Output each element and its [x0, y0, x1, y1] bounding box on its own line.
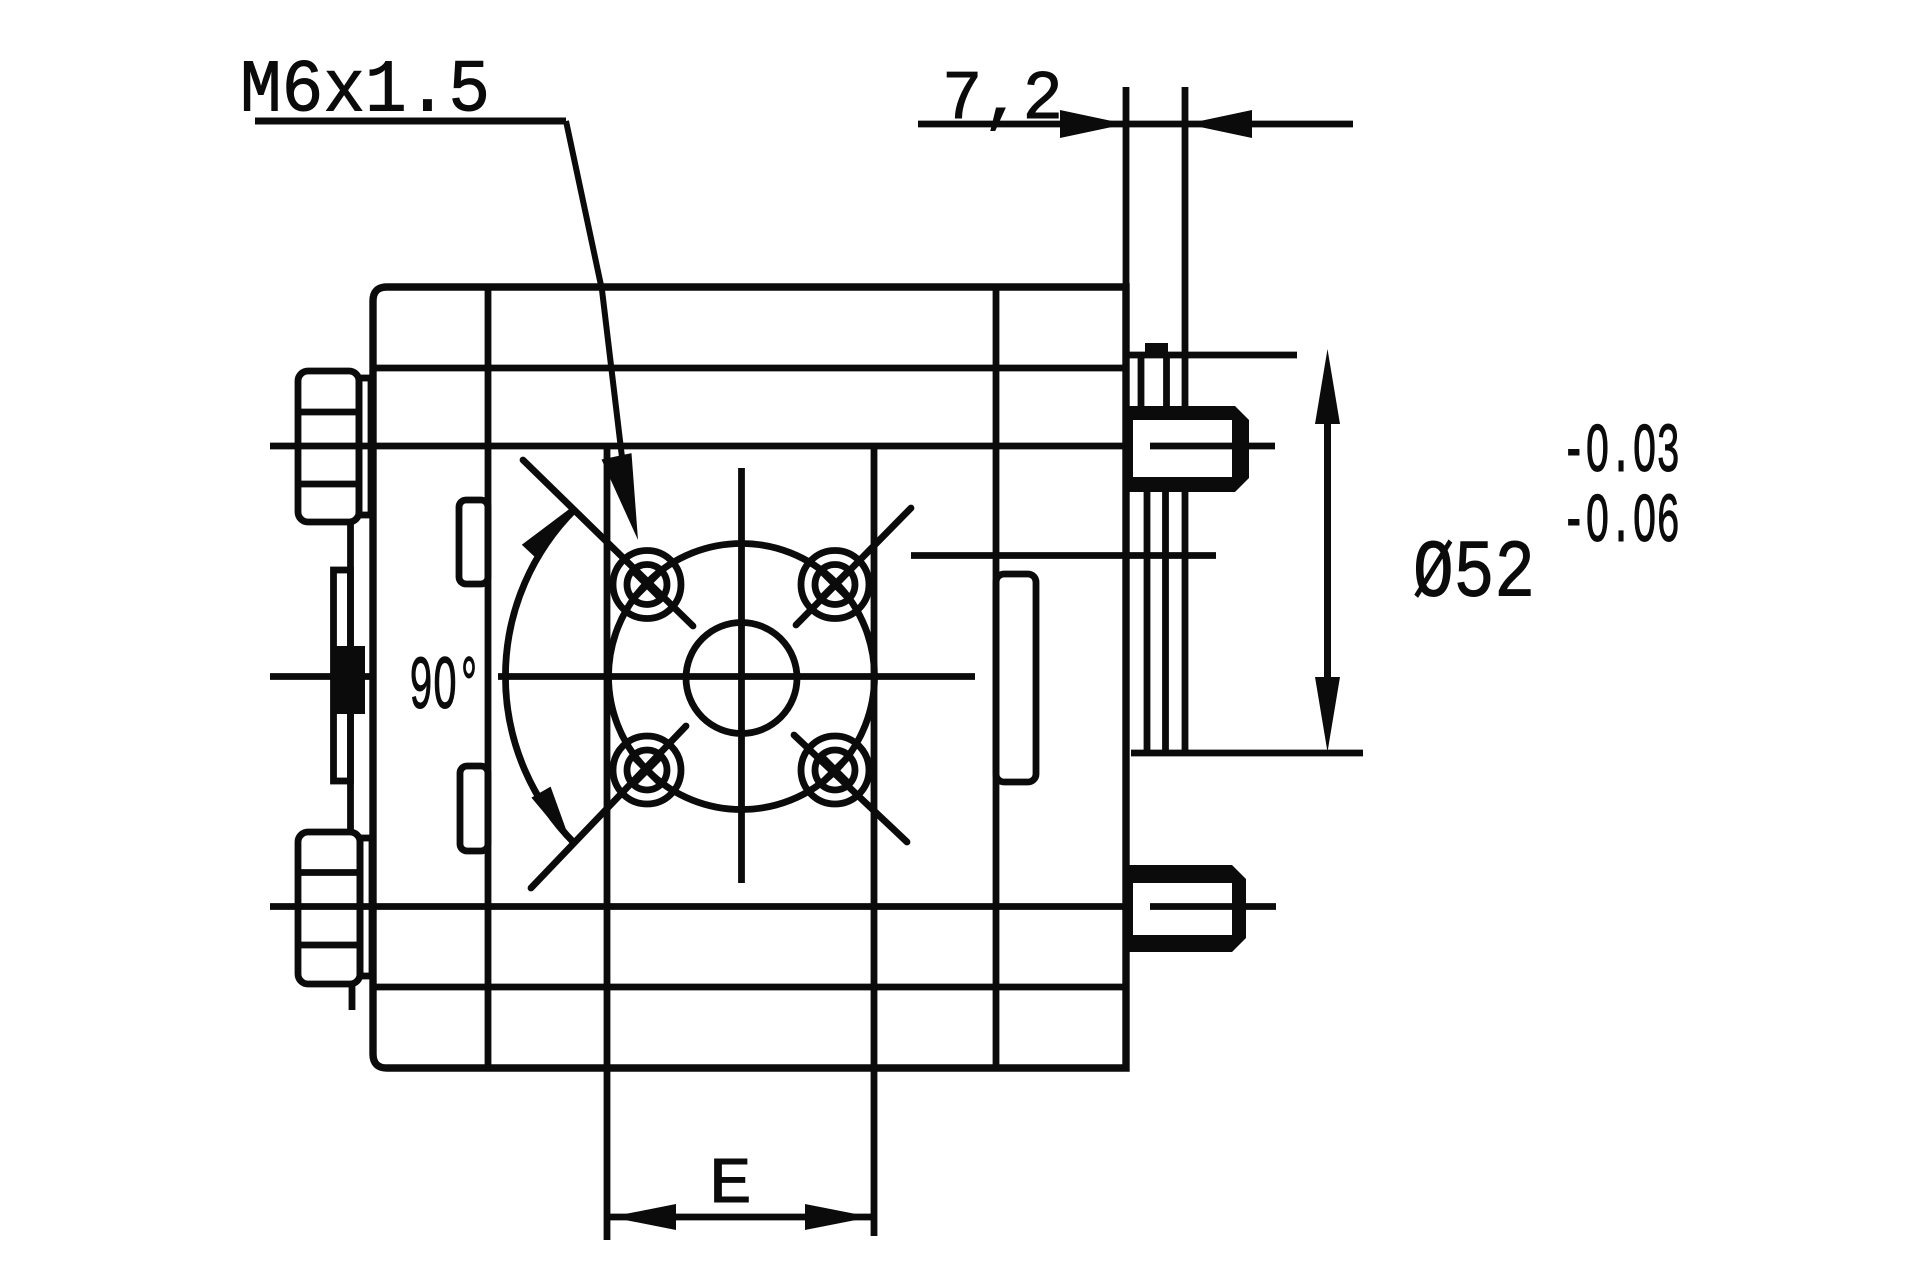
E arrowhead left: [610, 1204, 676, 1230]
cover inner vertical x=1147 lower: [1144, 492, 1151, 750]
7,2 arrowhead right-pointing: [1060, 110, 1126, 138]
7,2 arrowhead left-pointing: [1186, 110, 1252, 138]
bolt hole TR: [801, 551, 869, 619]
top bolt axis line y=446: [270, 443, 1275, 450]
pump body outline: [373, 287, 1126, 1068]
cover inner vertical x=1141 upper: [1138, 352, 1145, 406]
o52 bottom extension line y=753: [1131, 750, 1363, 757]
top bolt facet line upper: [298, 409, 359, 416]
diagonal ray BL: [531, 726, 686, 888]
upper boss center line: [1150, 443, 1232, 450]
right notch on x=996: [996, 574, 1036, 782]
gear bore line / E extension x=874: [871, 445, 878, 1236]
top bolt washer: [359, 378, 371, 515]
right mid horizontal line y=555.5: [911, 552, 1216, 559]
key tab on cover top: [1145, 343, 1168, 356]
90 arc arrowhead top: [522, 507, 572, 560]
body vertical parting line x=488: [485, 287, 492, 1068]
top bolt head outline: [298, 371, 359, 522]
body horizontal line y=987: [373, 984, 1126, 991]
diagonal ray TL: [523, 460, 693, 626]
svg-text:E: E: [709, 1148, 752, 1222]
pilot circle: [609, 544, 875, 810]
90 arc arrowhead bottom: [531, 787, 572, 846]
bottom bolt facet line upper: [298, 869, 360, 876]
left seal plate outline: [334, 570, 351, 781]
svg-text:7,2: 7,2: [942, 61, 1063, 140]
flange face vertical centerline: [738, 468, 745, 883]
upper boss bore: [1133, 420, 1232, 477]
bottom bolt facet line lower: [298, 942, 360, 949]
o52 dimension line: [1324, 420, 1331, 680]
bolt hole BL: [613, 736, 681, 804]
bottom bolt axis line y=906.5: [270, 903, 1276, 910]
rear cover right edge / 7,2 extension x=1185: [1182, 87, 1189, 406]
M6x1.5 underline: [255, 118, 566, 125]
7,2 dimension line: [918, 121, 1353, 128]
bolt hole BR: [801, 736, 869, 804]
seal plate edge line between bolts: [347, 521, 354, 832]
body horizontal line y=368: [373, 365, 1126, 372]
bottom hex bolt head: [298, 832, 372, 984]
rear cover left edge / 7,2 extension x=1126: [1123, 87, 1130, 1068]
cover inner vertical x=1166.5 upper: [1163, 352, 1170, 406]
top hex bolt head: [298, 371, 371, 522]
cover inner vertical x=1165.5 lower: [1162, 492, 1169, 750]
shaft hole circle: [686, 623, 797, 734]
bottom bolt washer: [360, 838, 372, 976]
spigot top silhouette line y=355: [1129, 352, 1297, 359]
svg-text:-O.O6: -O.O6: [1562, 484, 1680, 563]
o52 arrowhead down: [1315, 677, 1340, 752]
M6x1.5 leader arrowhead: [602, 453, 639, 540]
svg-text:Ø52: Ø52: [1413, 528, 1535, 621]
lower port boss: [1126, 865, 1246, 952]
svg-text:9O°: 9O°: [409, 645, 481, 731]
upper port boss: [1126, 406, 1249, 492]
rear cover right edge lower segment: [1182, 492, 1189, 750]
upper boss body: [1126, 406, 1249, 492]
seal plate edge tick below bottom bolt: [349, 984, 356, 1010]
lower boss body: [1126, 865, 1246, 952]
lower boss bore: [1133, 883, 1232, 935]
bottom bolt head outline: [298, 832, 360, 984]
gear bore line / E extension x=607: [604, 445, 611, 1240]
left notch upper on x=488: [459, 500, 488, 584]
left seal plug solid: [331, 646, 365, 714]
body vertical parting line x=996: [993, 287, 1000, 1068]
bolt hole TL: [613, 551, 681, 619]
flange face horizontal centerline: [498, 673, 975, 680]
E arrowhead right: [805, 1204, 871, 1230]
diagonal ray TR: [796, 508, 911, 625]
M6x1.5 leader line: [566, 121, 624, 474]
90 degree dimension arc: [505, 510, 574, 844]
E dimension line: [607, 1214, 874, 1221]
left notch lower on x=488: [460, 766, 488, 851]
svg-text:-O.O3: -O.O3: [1562, 414, 1680, 493]
flange face horizontal centerline left stub: [270, 673, 373, 680]
top bolt facet line lower: [298, 481, 359, 488]
diagonal ray BR: [794, 735, 907, 842]
lower boss center line: [1150, 903, 1232, 910]
o52 arrowhead up: [1315, 349, 1340, 424]
